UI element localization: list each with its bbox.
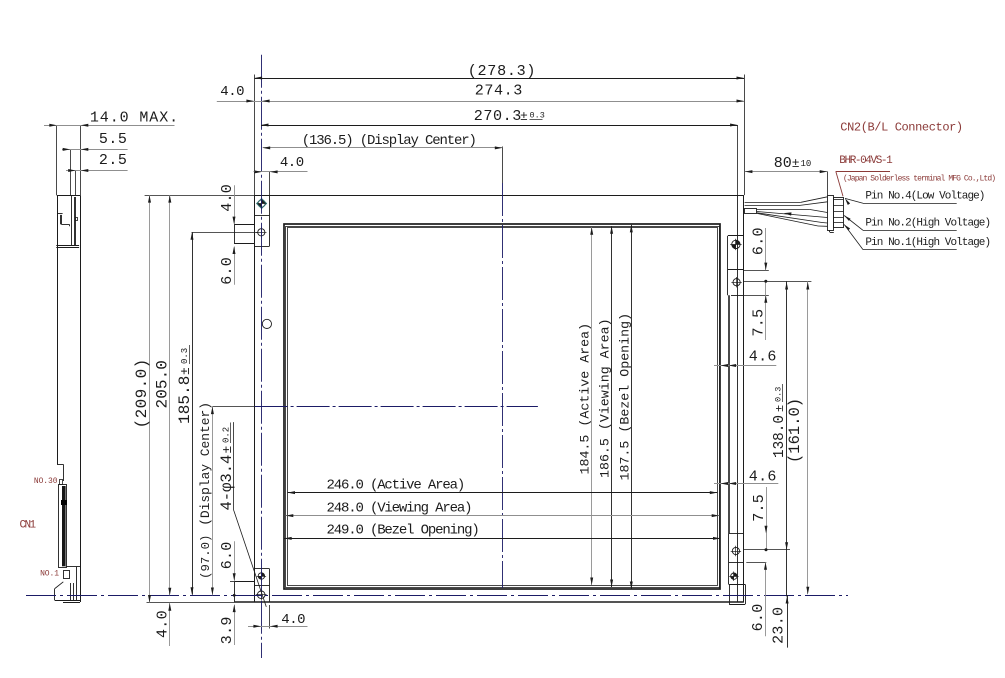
side view: left edge step [57,464,64,481]
svg-text:BHR-04VS-1: BHR-04VS-1 [839,155,893,167]
svg-text:274.3: 274.3 [475,82,523,100]
wire 4 [757,213,828,226]
dimension 2.5 text [99,152,128,169]
dimension 14.0 MAX. line [44,124,175,127]
dimension (161.0) text [786,398,804,463]
connector CN2 housing [828,196,834,231]
label Japan Solderless [843,174,995,183]
dimension 248.0 line [286,514,719,517]
front view bezel bottom edge (thick) [235,602,746,605]
dimension 23.0 line [786,595,789,647]
dimension (278.3) text [468,62,536,80]
dimension 4.0 text (top-left tab) [219,184,236,212]
side view: top bracket clip [57,214,69,246]
dimension 4.0 line (bottom horizontal) [248,625,308,628]
svg-text:80: 80 [774,155,792,172]
dimension 4.0 text (bottom horizontal) [281,612,305,628]
side view: top edge [57,195,80,197]
svg-text:23.0: 23.0 [771,607,788,644]
dimension 186.5 line [610,226,613,587]
dimension 185.8 text [176,345,194,424]
label Pin No.1 [865,237,990,249]
top-right tab line [728,269,744,271]
svg-text:Pin No.1(High Voltage): Pin No.1(High Voltage) [865,237,990,249]
svg-text:Pin No.2(High Voltage): Pin No.2(High Voltage) [865,218,990,230]
bottom-right tab outline [729,533,744,584]
label NO.1 [40,570,59,579]
extension line y=270 (right) [744,270,769,272]
extension line right edge (above) [744,75,746,196]
connector CN2 pin block [834,198,844,228]
dimension 14.0 MAX. text [90,110,179,127]
dimension 6.0 line (right top) [764,228,767,270]
dimension 7.5 text (right top) [751,309,768,337]
svg-text:(161.0): (161.0) [786,398,804,463]
dimension 4.6 line (right lower) [714,482,778,485]
svg-text:(278.3): (278.3) [468,62,536,80]
svg-text:4.6: 4.6 [749,348,777,365]
side view: inner frame line [71,195,73,245]
bottom-left tab top [255,568,270,570]
svg-text:187.5 (Bezel Opening): 187.5 (Bezel Opening) [617,313,632,481]
dimension 4.0 line (bottom-left vertical) [168,603,171,646]
bottom-left tab inner vertical [269,569,271,603]
dimension 6.0 line (top-left tab) [233,247,236,285]
dimension 6.0 text (top-left tab) [219,257,236,285]
extension line y=562.3 (right) [746,562,766,564]
dimension 5.5 line [62,148,128,151]
dimension 4.6 text (right lower) [749,469,777,486]
svg-text:2.5: 2.5 [99,152,128,169]
side view: module left edge [57,195,59,464]
mounting hole (top-right, hatched) [730,239,741,250]
leader Pin No.2 [844,216,957,231]
mounting hole phi3.4 (bottom-right) [731,546,741,556]
label CN2 (B/L Connector) [840,121,962,135]
svg-text:3.9: 3.9 [219,616,236,644]
svg-text:Pin No.4(Low Voltage): Pin No.4(Low Voltage) [865,191,984,203]
display centerline black top segment [502,147,504,184]
dimension (97.0) text [199,535,213,579]
svg-text:NO.30: NO.30 [34,477,58,486]
svg-text:±: ± [220,446,235,454]
extension line 5.5 ref [70,149,72,195]
svg-text:(136.5) (Display Center): (136.5) (Display Center) [302,133,476,149]
display horizontal centerline (navy) [255,406,538,408]
dimension 246.0 line [288,491,718,494]
dimension 4.0 line (hole offset) [254,170,308,173]
dimension 7.5 text (right bottom) [751,494,768,522]
extension line protrusion top (bottom-left) [230,581,235,583]
wire 3 [757,213,828,223]
svg-text:±: ± [178,367,193,375]
dimension 7.5 line (right top) [764,280,767,340]
dimension 184.5 text [577,323,592,475]
svg-text:246.0 (Active Area): 246.0 (Active Area) [327,478,465,494]
bottom holes centerline (navy, horizontal) [26,595,848,597]
wire upper pair [745,197,828,206]
svg-text:4.0: 4.0 [281,612,305,628]
svg-text:±: ± [520,109,528,124]
svg-text:4.0: 4.0 [155,610,172,638]
mounting hole (bottom-left, hatched) [257,571,266,580]
extension line connector left [827,171,829,195]
dimension 246.0 text [327,478,465,494]
svg-text:248.0 (Viewing Area): 248.0 (Viewing Area) [327,501,472,517]
dimension 4.0 text (bottom-left vertical) [155,610,172,638]
dimension 5.5 text [99,131,128,148]
svg-text:10: 10 [801,159,812,169]
bottom-left tab protrusion [235,582,255,603]
svg-text:249.0 (Bezel Opening): 249.0 (Bezel Opening) [327,523,479,539]
bottom-right tab foot [729,585,746,605]
top-right tab bottom [731,295,744,297]
extension line y=281.3 (right) [744,281,811,283]
side view: module right edge [80,195,82,602]
dimension 6.0 line (bottom-left tab) [233,541,236,580]
svg-text:4.0: 4.0 [280,155,304,171]
svg-text:0.2: 0.2 [222,427,232,443]
dimension 185.8 line [191,232,194,595]
dimension 80+-10 text [774,155,812,172]
wire 2 [757,212,828,218]
dimension 187.5 line [630,225,633,589]
svg-text:205.0: 205.0 [153,360,171,409]
extension line bezel bottom (left) [147,602,235,604]
dimension 6.0 line (right bottom) [764,562,767,636]
svg-text:186.5 (Viewing Area): 186.5 (Viewing Area) [598,318,613,478]
connector CN1 contact strip [62,486,66,566]
label Pin No.2 [865,218,990,230]
extension line module right edge up [80,125,82,195]
svg-text:NO.1: NO.1 [40,570,59,579]
dimension 7.5 line (right bottom) [765,487,768,551]
label CN1 [20,520,37,532]
svg-text:7.5: 7.5 [751,309,768,337]
connector CN2 housing foot [830,230,834,232]
svg-text:(Japan Solderless terminal MFG: (Japan Solderless terminal MFG Co.,Ltd) [843,174,995,183]
dimension 4-phi3.4 text [218,423,236,511]
svg-text:270.3: 270.3 [474,107,522,125]
svg-text:6.0: 6.0 [751,227,768,255]
svg-text:6.0: 6.0 [750,603,767,631]
dimension display-center line (left) [211,406,214,595]
svg-text:CN2(B/L Connector): CN2(B/L Connector) [840,121,962,135]
extension line tab inner (below) [269,605,271,629]
svg-text:0.3: 0.3 [530,111,545,121]
dimension 80+-10 line [745,170,827,173]
dimension (161.0) line [806,281,809,594]
svg-text:4.0: 4.0 [219,184,236,212]
leader 4-phi3.4 vertical [233,422,235,510]
hole centerline extension (y=232.3) [192,232,258,234]
connector CN1 top tab [60,480,63,485]
label Pin No.4 [865,191,984,203]
svg-text:184.5 (Active Area): 184.5 (Active Area) [577,323,592,475]
dimension 249.0 line [284,537,720,540]
extension line tab bottom (right) [744,295,769,297]
extension line 270.3 right [737,125,739,195]
display centerline (navy, vertical) [502,183,504,588]
dimension 3.9 text [219,616,236,644]
mounting hole phi3.4 (bottom-left) [256,589,267,600]
dimension 4.6 line (right upper) [714,364,776,367]
svg-text:±: ± [773,405,787,412]
label BHR-04VS-1 [839,155,893,167]
svg-text:±: ± [792,156,800,171]
wire bundle arrowhead [784,212,792,215]
side view: bottom bracket ribs [71,567,77,601]
extension line left edge (above) [254,75,256,196]
side view: bottom bracket chamfer [55,582,64,601]
dimension (278.3) line [255,77,744,80]
svg-text:185.8: 185.8 [176,375,194,424]
extension line 2.5 ref [75,171,77,196]
svg-text:5.5: 5.5 [99,131,128,148]
dimension 270.3 text [474,107,545,125]
dimension (209.0) text [133,358,151,428]
dimension 4.6 text (right upper) [749,348,777,365]
dimension 4.0 text (top far left) [220,84,244,100]
side view: bracket bottom lines [56,246,79,248]
svg-text:6.0: 6.0 [219,541,236,569]
side view: bracket boss square [76,218,78,221]
bezel opening rectangle (thick) [284,224,720,589]
leader 4-phi3.4 diagonal [234,511,266,607]
connector CN1 latch blob [61,500,67,505]
front view bezel top edge [255,195,744,197]
wire 1 [757,209,828,212]
leader Pin No.4 [845,198,957,205]
connector CN1 body [59,485,67,568]
svg-text:(97.0): (97.0) [199,535,213,579]
top-left tab protrusion [234,224,255,244]
dimension 6.0 text (right top) [751,227,768,255]
side view: bottom bracket base [55,601,80,603]
svg-text:7.5: 7.5 [751,494,768,522]
dimension 3.9 line [233,594,236,645]
dimension 274.3 text [475,82,523,100]
svg-text:CN1: CN1 [20,520,37,532]
red leader line [836,171,890,196]
dimension 6.0 text (right bottom) [750,603,767,631]
dimension 4.0 text (hole offset) [280,155,304,171]
bottom-right tab line [729,562,744,564]
dimension 205.0 line [168,195,171,595]
extension line tab inner (above) [269,171,271,195]
dimension 248.0 text [327,501,472,517]
dimension (136.5) display center line [263,146,503,149]
svg-text:0.3: 0.3 [180,348,190,364]
svg-text:(Display Center): (Display Center) [198,402,213,526]
svg-text:4.6: 4.6 [749,469,777,486]
front view bezel right inner line [737,195,739,602]
front view bezel right outer edge [743,195,745,602]
connector CN2 pin slots [834,200,844,223]
alignment hole on bezel face [262,319,271,328]
dimension 6.0 text (bottom-left) [219,541,236,569]
dimension (Display Center) text [198,402,213,526]
svg-text:6.0: 6.0 [219,257,236,285]
top-left tab bottom [255,246,270,248]
svg-text:(209.0): (209.0) [133,358,151,428]
top-left tab inner vertical [269,195,271,246]
mounting hole datum (top-left, hatched) [257,198,267,208]
active area rectangle [288,228,718,586]
mounting hole (bottom-right, hatched) [729,572,738,581]
extension line hole3 center (right) [744,549,790,551]
dimension 138.0 text [772,384,788,458]
dimension 274.3 line [217,100,744,103]
mounting hole phi3.4 (top-right) [731,277,741,287]
dimension 270.3 line [261,124,738,127]
mounting hole phi3.4 (top-left) [256,227,266,237]
dimension 184.5 line [590,227,593,585]
left holes centerline (navy, vertical) [261,55,263,658]
dimension 205.0 text [153,360,171,409]
right frame thick vertical [728,295,730,533]
dimension 4.0 line (top-left tab) [233,185,236,224]
bottom-left tab line [255,585,270,587]
label NO.30 [34,477,58,486]
front view bezel left edge [254,195,256,602]
dimension 249.0 text [327,523,479,539]
dimension 187.5 text [617,313,632,481]
dimension (209.0) line [148,195,151,602]
extension line module left edge up [56,125,58,195]
dimension 23.0 text [771,607,788,644]
display horizontal centerline ext (black) [212,406,254,408]
dimension 138.0 line [785,281,788,596]
leader Pin No.1 [844,225,957,250]
wire exit stub [745,209,757,214]
dimension (136.5) text [302,133,476,149]
side view: panel layer thick line [74,197,76,246]
svg-text:4-φ3.4: 4-φ3.4 [218,455,236,511]
top-right tab outline [728,236,744,296]
svg-text:4.0: 4.0 [220,84,244,100]
datum teal diamond [257,199,267,209]
side view: bottom step [66,566,80,568]
dimension 186.5 text [598,318,613,478]
extension line bezel top (left) [145,195,255,197]
svg-text:14.0 MAX.: 14.0 MAX. [90,110,179,127]
top-left tab line 1 [255,215,270,217]
dimension 2.5 line [66,169,128,172]
viewing area rectangle [286,227,720,588]
svg-text:0.3: 0.3 [774,387,784,402]
side view: bottom hook [64,571,70,579]
